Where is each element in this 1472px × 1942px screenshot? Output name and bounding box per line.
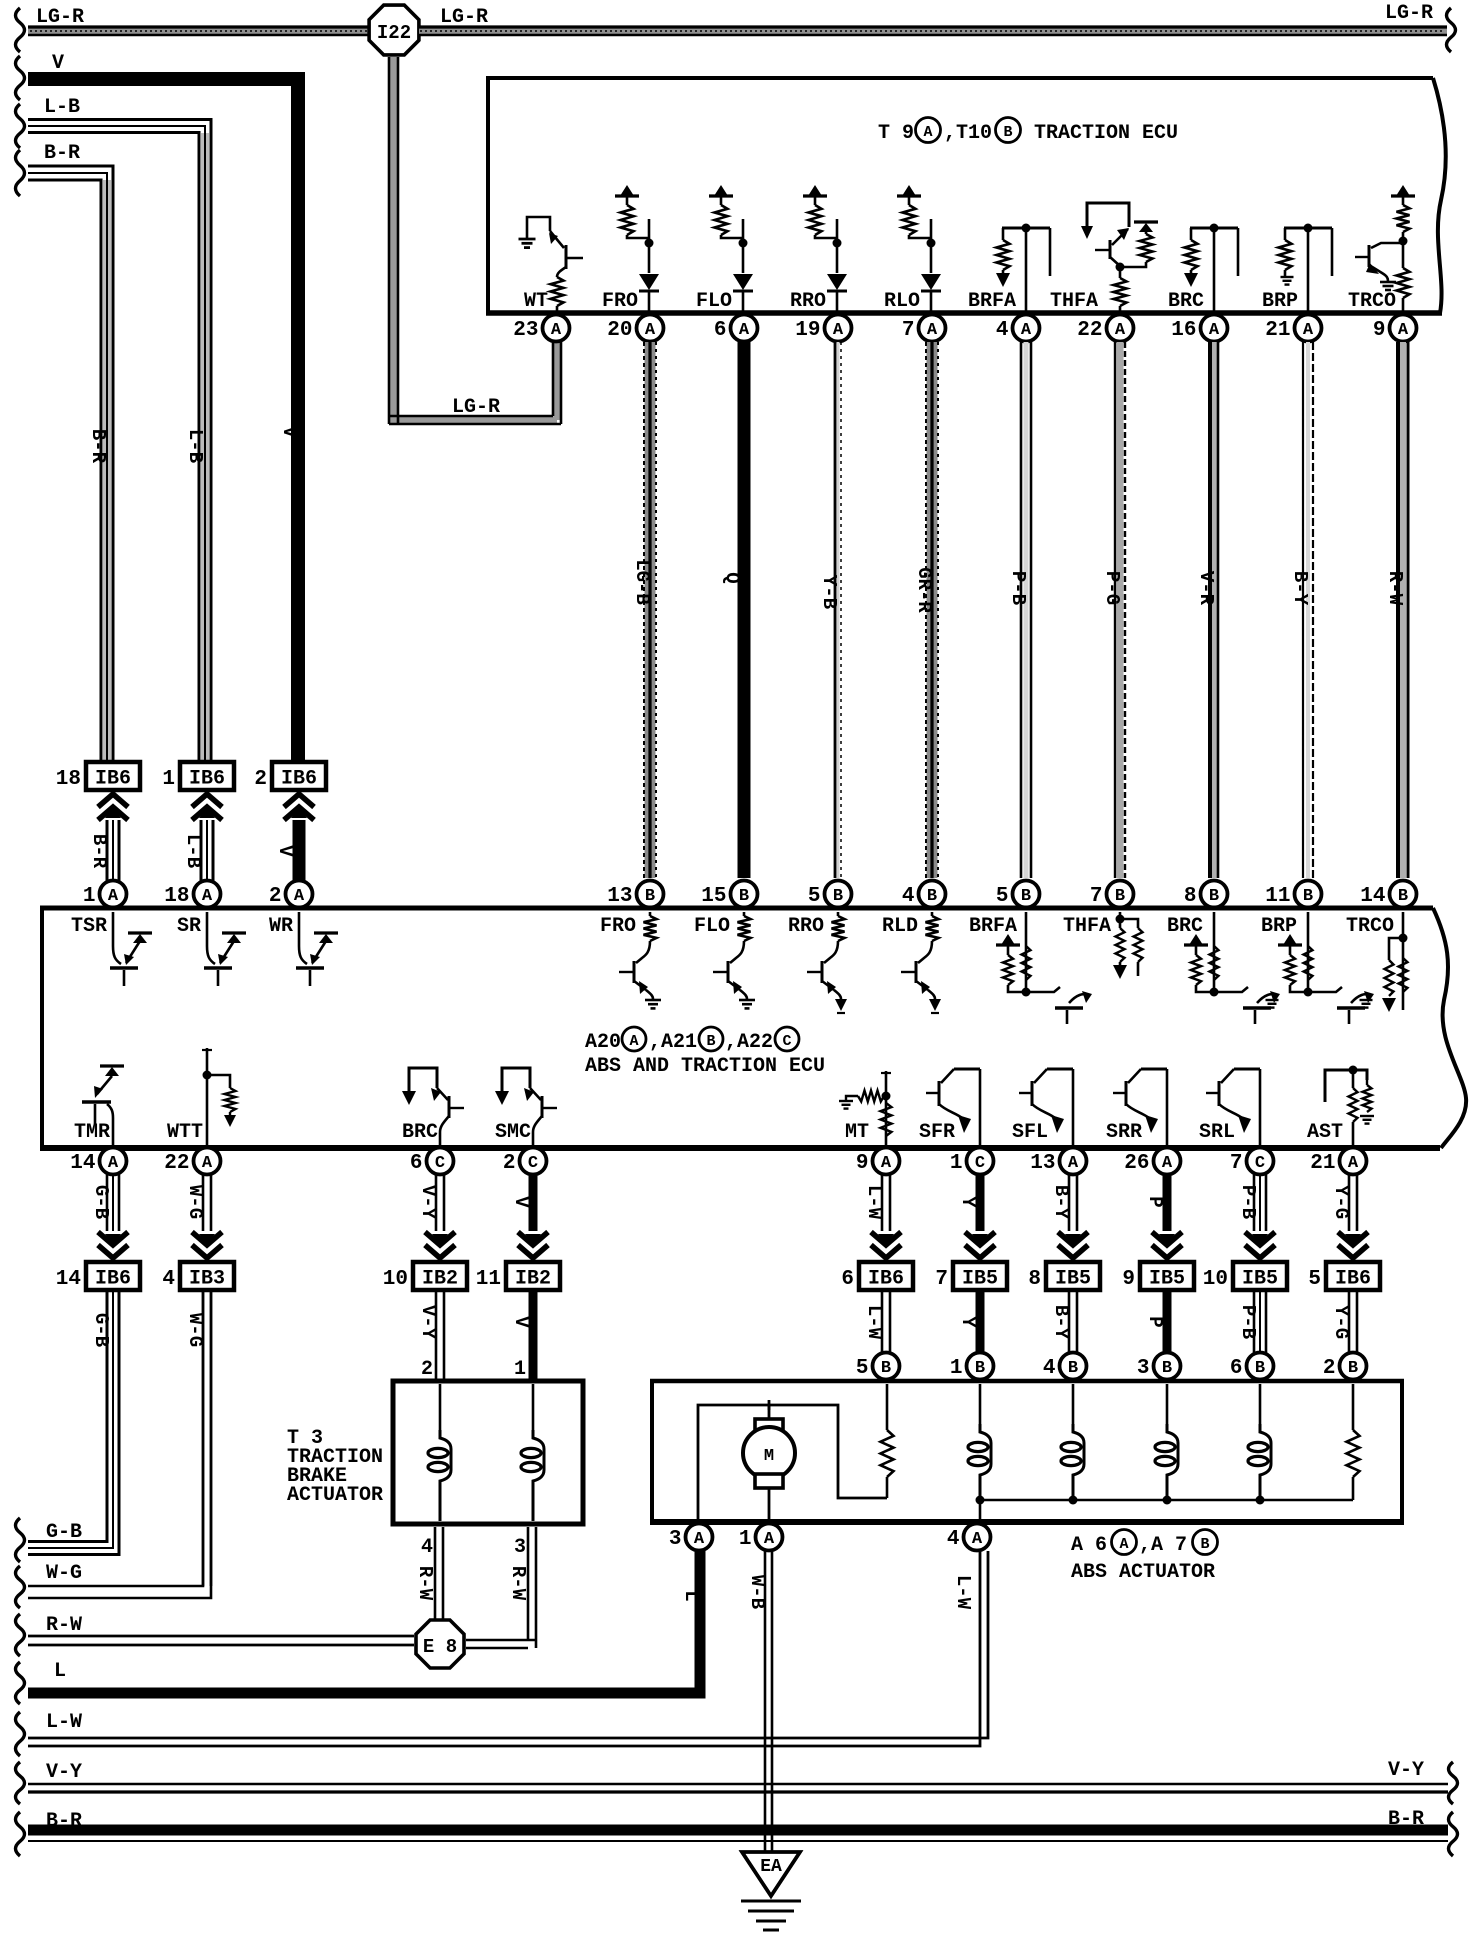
svg-text:L-B: L-B (184, 429, 206, 463)
svg-text:9: 9 (856, 1152, 869, 1175)
svg-text:2: 2 (421, 1358, 433, 1381)
svg-text:Y-B: Y-B (818, 575, 840, 609)
unit BRP transistor (inside ABS ECU) (1278, 943, 1302, 946)
transistor SRL (inside ABS ECU) (1259, 1069, 1262, 1145)
svg-text:TSR: TSR (71, 915, 107, 938)
svg-text:4: 4 (902, 885, 915, 908)
pin 6(C) ABS ECU bottom (427, 1148, 454, 1175)
connector 14 IB6 (86, 1262, 140, 1290)
svg-text:14: 14 (1360, 885, 1385, 908)
svg-text:W-G: W-G (46, 1562, 82, 1585)
svg-text:W-B: W-B (746, 1575, 768, 1609)
svg-text:SRR: SRR (1106, 1121, 1142, 1144)
svg-text:1: 1 (950, 1152, 963, 1175)
connector 18 IB6 (86, 762, 140, 790)
wire B-Y (pin 21A to 11B) (1306, 342, 1310, 878)
transistor TSR (inside ABS ECU) (113, 912, 121, 964)
svg-text:IB6: IB6 (95, 1268, 131, 1291)
arrow into connector IB6 column x113 (98, 794, 128, 807)
svg-text:Y: Y (957, 1316, 979, 1328)
svg-text:BRC: BRC (1168, 290, 1204, 313)
svg-text:B: B (927, 887, 937, 906)
svg-text:13: 13 (607, 885, 632, 908)
svg-text:7: 7 (935, 1268, 948, 1291)
svg-text:B: B (1303, 887, 1313, 906)
svg-text:B: B (1003, 124, 1012, 141)
svg-text:TRACTION ECU: TRACTION ECU (1034, 122, 1178, 145)
svg-text:A: A (1068, 1154, 1079, 1173)
wire GR-R (pin 7A to 4B) (927, 342, 938, 878)
svg-text:C: C (528, 1154, 538, 1173)
svg-text:B: B (1115, 887, 1125, 906)
svg-text:V: V (278, 426, 300, 438)
unit WTT wire resistor arrow (inside ABS ECU) (206, 1048, 209, 1145)
pin 15(B) ABS ECU top (731, 881, 758, 908)
svg-text:IB6: IB6 (1335, 1268, 1371, 1291)
svg-text:ABS AND TRACTION ECU: ABS AND TRACTION ECU (585, 1055, 825, 1078)
wire R-W E8 to pin3 wire (466, 1639, 536, 1642)
svg-text:WTT: WTT (167, 1121, 203, 1144)
unit TRCO resistors (inside ABS ECU) (1402, 912, 1405, 1010)
transistor TRCO (inside traction ECU) (1391, 194, 1415, 197)
connector 4 IB3 (180, 1262, 234, 1290)
wire V from ECU pin down (529, 1174, 538, 1231)
svg-text:5: 5 (808, 885, 821, 908)
transistor SFR (inside ABS ECU) (979, 1069, 982, 1145)
svg-text:3: 3 (1137, 1357, 1150, 1380)
svg-text:A: A (1119, 1536, 1128, 1553)
transistor RRO (inside ABS ECU) (832, 916, 845, 941)
arrow into connector 6 IB6 (871, 1245, 901, 1258)
svg-text:6: 6 (841, 1268, 854, 1291)
pin 2(B) ABS actuator top (1340, 1353, 1367, 1380)
svg-text:V: V (52, 52, 64, 75)
svg-text:G-B: G-B (90, 1313, 112, 1347)
svg-text:B-R: B-R (88, 834, 110, 869)
driver FLO: pull-up resistor and diode (inside traction ECU) (709, 194, 733, 197)
transistor SFL (inside ABS ECU) (1072, 1069, 1075, 1145)
resistor in ABS actuator (left) (886, 1384, 889, 1430)
pin 11(B) ABS ECU top (1295, 881, 1322, 908)
pin 13(B) ABS ECU top (637, 881, 664, 908)
ABS actuator box outline (650, 1379, 1404, 1384)
svg-text:A: A (1398, 321, 1409, 340)
wire V below connector (529, 1290, 538, 1381)
svg-text:B: B (1200, 1536, 1209, 1553)
pin 1(B) ABS actuator top (967, 1353, 994, 1380)
svg-text:R-W: R-W (1384, 571, 1406, 606)
sensor BRFA: resistor divider (inside traction ECU) (1002, 227, 1050, 230)
ABS and traction ECU box outline (40, 906, 1433, 911)
svg-text:R-W: R-W (46, 1614, 82, 1637)
arrow into connector 11 IB2 (518, 1245, 548, 1258)
pin 7(A) of traction ECU (919, 315, 946, 342)
coil solenoid in ABS actuator x1167 (1166, 1384, 1169, 1424)
resistor in ABS actuator (right) (1352, 1384, 1355, 1430)
svg-text:A: A (881, 1154, 892, 1173)
svg-text:B: B (1398, 887, 1408, 906)
svg-text:RRO: RRO (788, 915, 824, 938)
svg-text:V: V (274, 845, 296, 857)
transistor TMR (inside ABS ECU) (100, 1064, 124, 1067)
svg-text:GR-R: GR-R (913, 567, 935, 613)
wire W-B from motor pin 1A to ground EA (764, 1551, 767, 1852)
wire P below connector (1163, 1290, 1172, 1353)
svg-text:RRO: RRO (790, 290, 826, 313)
wire L-B connector to pin (200, 820, 203, 884)
svg-text:A: A (629, 1033, 638, 1050)
svg-text:B: B (881, 1359, 891, 1378)
pin 5(B) ABS actuator top (873, 1353, 900, 1380)
svg-text:1: 1 (83, 885, 96, 908)
svg-text:BRFA: BRFA (968, 290, 1016, 313)
wire from pin 3A up and across to motor/resistor (698, 1405, 887, 1519)
svg-text:22: 22 (1077, 319, 1102, 342)
svg-text:10: 10 (1203, 1268, 1228, 1291)
svg-text:LG-R: LG-R (1385, 2, 1433, 25)
wire R-W from T3 pin4 to E8 (434, 1527, 437, 1621)
svg-text:SFL: SFL (1012, 1121, 1048, 1144)
svg-text:23: 23 (513, 319, 538, 342)
pin 13(A) ABS ECU bottom (1060, 1148, 1087, 1175)
pin 1(A) ABS ECU top (100, 881, 127, 908)
svg-text:3: 3 (669, 1528, 682, 1551)
svg-text:B: B (833, 887, 843, 906)
svg-text:V: V (510, 1196, 532, 1208)
arrow into connector 4 IB3 (192, 1245, 222, 1258)
wire P-B from ECU pin down (1253, 1174, 1256, 1231)
svg-text:B: B (1068, 1359, 1078, 1378)
svg-text:20: 20 (607, 319, 632, 342)
continuation curl LG-R right (1447, 8, 1456, 52)
wire B-R connector to pin (106, 820, 109, 884)
svg-text:2: 2 (1323, 1357, 1336, 1380)
svg-text:C: C (975, 1154, 985, 1173)
pin 7(B) ABS ECU top (1107, 881, 1134, 908)
svg-text:V: V (510, 1316, 532, 1328)
unit MT resistor network (inside ABS ECU) (885, 1071, 888, 1145)
svg-text:V-Y: V-Y (46, 1761, 82, 1784)
svg-text:A: A (551, 321, 562, 340)
svg-text:A: A (202, 887, 213, 906)
svg-text:Y: Y (957, 1196, 979, 1208)
arrow into connector 7 IB5 (965, 1245, 995, 1258)
wire LG-B (pin 20A to 13B) (645, 342, 656, 878)
svg-text:TMR: TMR (74, 1121, 110, 1144)
wire G-B from ECU pin down (106, 1174, 109, 1231)
connector 10 IB5 (1233, 1262, 1287, 1290)
svg-text:14: 14 (70, 1152, 95, 1175)
svg-text:19: 19 (795, 319, 820, 342)
pin 16(A) of traction ECU (1201, 315, 1228, 342)
svg-text:11: 11 (1265, 885, 1290, 908)
svg-text:TRCO: TRCO (1348, 290, 1396, 313)
coil solenoid in ABS actuator x980 (979, 1384, 982, 1424)
svg-text:FRO: FRO (602, 290, 638, 313)
svg-text:WR: WR (269, 915, 293, 938)
svg-text:5: 5 (996, 885, 1009, 908)
arrow into connector 14 IB6 (98, 1245, 128, 1258)
svg-text:RLO: RLO (884, 290, 920, 313)
svg-text:8: 8 (1184, 885, 1197, 908)
pin 1(C) ABS ECU bottom (967, 1148, 994, 1175)
svg-text:SRL: SRL (1199, 1121, 1235, 1144)
svg-text:IB6: IB6 (95, 768, 131, 791)
pin 14(A) ABS ECU bottom (100, 1148, 127, 1175)
svg-text:B-Y: B-Y (1289, 571, 1311, 606)
transistor FRO (inside ABS ECU) (644, 916, 657, 941)
svg-text:,A22: ,A22 (725, 1031, 773, 1054)
pin 20(A) of traction ECU (637, 315, 664, 342)
pin 6(A) of traction ECU (731, 315, 758, 342)
T3 traction brake actuator box outline (393, 1381, 583, 1524)
wire P from ECU pin down (1163, 1174, 1172, 1231)
svg-text:A: A (1021, 321, 1032, 340)
continuation curl LG-R left (16, 8, 25, 52)
svg-text:Y-G: Y-G (1330, 1305, 1352, 1339)
transistor THFA (inside traction ECU) (1087, 203, 1129, 227)
svg-text:A: A (108, 887, 119, 906)
svg-text:ABS ACTUATOR: ABS ACTUATOR (1071, 1561, 1215, 1584)
connector 10 IB2 (413, 1262, 467, 1290)
connector 1 IB6 (180, 762, 234, 790)
svg-text:R-W: R-W (507, 1566, 529, 1601)
wire B-Y below connector (1068, 1290, 1071, 1353)
svg-text:P-B: P-B (1007, 571, 1029, 605)
svg-text:P-B: P-B (1237, 1185, 1259, 1219)
unit AST resistors (inside ABS ECU) (1325, 1070, 1367, 1102)
svg-text:4: 4 (947, 1528, 960, 1551)
wire V-Y from ECU pin down (435, 1174, 438, 1231)
svg-text:LG-B: LG-B (631, 559, 653, 605)
wire Y-G below connector (1348, 1290, 1351, 1353)
svg-text:FLO: FLO (694, 915, 730, 938)
wire W-G from ECU pin down (202, 1174, 205, 1231)
svg-text:4: 4 (996, 319, 1009, 342)
svg-text:A: A (1348, 1154, 1359, 1173)
svg-text:A: A (294, 887, 305, 906)
svg-text:BRC: BRC (1167, 915, 1203, 938)
pin 7(C) ABS ECU bottom (1247, 1148, 1274, 1175)
wire Y-B (pin 19A to 5B) (837, 342, 840, 878)
pin 9(A) of traction ECU (1390, 315, 1417, 342)
pin 1(A) ABS actuator bottom (756, 1524, 783, 1551)
wire G-B below connector (106, 1290, 109, 1541)
arrow into connector IB6 column x207 (192, 794, 222, 807)
svg-text:B: B (1255, 1359, 1265, 1378)
svg-text:IB2: IB2 (422, 1268, 458, 1291)
svg-text:18: 18 (56, 768, 81, 791)
svg-text:V-Y: V-Y (417, 1185, 439, 1220)
coil solenoid in T3 (left) (439, 1384, 442, 1430)
svg-text:6: 6 (714, 319, 727, 342)
svg-text:A: A (923, 124, 932, 141)
transistor SR (inside ABS ECU) (207, 912, 215, 964)
svg-text:G-B: G-B (90, 1185, 112, 1219)
svg-text:V-Y: V-Y (417, 1305, 439, 1340)
svg-text:B: B (1209, 887, 1219, 906)
svg-text:IB5: IB5 (1149, 1268, 1185, 1291)
unit BRC transistor (inside ABS ECU) (1184, 943, 1208, 946)
svg-text:LG-R: LG-R (36, 6, 84, 29)
svg-text:THFA: THFA (1050, 290, 1098, 313)
svg-text:E 8: E 8 (423, 1636, 457, 1658)
svg-text:B-R: B-R (87, 429, 109, 464)
arrow into connector IB6 column x299 (284, 794, 314, 807)
wire LG-R from I22 down and right to traction ECU pin 23 (390, 57, 397, 424)
svg-text:ACTUATOR: ACTUATOR (287, 1484, 383, 1507)
coil solenoid in T3 (right) (532, 1384, 535, 1430)
wire P-B below connector (1253, 1290, 1256, 1353)
svg-text:B: B (645, 887, 655, 906)
ground EA (742, 1852, 800, 1896)
svg-text:26: 26 (1124, 1152, 1149, 1175)
svg-text:IB3: IB3 (189, 1268, 225, 1291)
svg-text:B: B (1348, 1359, 1358, 1378)
svg-text:LG-R: LG-R (440, 6, 488, 29)
sensor BRC: resistor divider (inside traction ECU) (1190, 227, 1238, 230)
pin 21(A) ABS ECU bottom (1340, 1148, 1367, 1175)
svg-text:SR: SR (177, 915, 201, 938)
svg-text:MT: MT (845, 1121, 869, 1144)
svg-text:L-W: L-W (863, 1185, 885, 1220)
svg-text:6: 6 (410, 1152, 423, 1175)
arrow into connector 10 IB2 (425, 1245, 455, 1258)
wire L-W from ECU pin down (881, 1174, 884, 1231)
connector 8 IB5 (1046, 1262, 1100, 1290)
svg-text:P: P (1144, 1196, 1166, 1207)
pin 5(B) ABS ECU top (825, 881, 852, 908)
svg-text:15: 15 (701, 885, 726, 908)
connector 11 IB2 (506, 1262, 560, 1290)
svg-text:B: B (706, 1033, 715, 1050)
svg-text:FLO: FLO (696, 290, 732, 313)
svg-text:L: L (54, 1660, 66, 1683)
svg-text:B-R: B-R (44, 142, 80, 165)
pin 4(A) ABS actuator bottom (964, 1524, 991, 1551)
svg-text:,A21: ,A21 (649, 1031, 697, 1054)
coil solenoid in ABS actuator x1073 (1072, 1384, 1075, 1424)
svg-text:L-B: L-B (44, 96, 80, 119)
svg-text:IB6: IB6 (281, 768, 317, 791)
connector 9 IB5 (1140, 1262, 1194, 1290)
svg-text:13: 13 (1030, 1152, 1055, 1175)
svg-text:A: A (833, 321, 844, 340)
svg-text:B-Y: B-Y (1050, 1305, 1072, 1340)
svg-text:B-Y: B-Y (1050, 1185, 1072, 1220)
pin 3(B) ABS actuator top (1154, 1353, 1181, 1380)
svg-text:B: B (975, 1359, 985, 1378)
svg-text:TRCO: TRCO (1346, 915, 1394, 938)
svg-text:L-B: L-B (182, 834, 204, 868)
svg-text:8: 8 (1028, 1268, 1041, 1291)
transistor SRR (inside ABS ECU) (1166, 1069, 1169, 1145)
svg-text:B: B (1021, 887, 1031, 906)
svg-text:5: 5 (1308, 1268, 1321, 1291)
svg-text:14: 14 (56, 1268, 81, 1291)
traction ECU box outline (486, 76, 1433, 80)
pin 5(B) ABS ECU top (1013, 881, 1040, 908)
svg-text:LG-R: LG-R (452, 396, 500, 419)
svg-text:11: 11 (476, 1268, 501, 1291)
wire W-G below connector (202, 1290, 205, 1586)
arrow into connector 10 IB5 (1245, 1245, 1275, 1258)
svg-text:A: A (645, 321, 656, 340)
svg-text:4: 4 (1043, 1357, 1056, 1380)
arrow into connector 8 IB5 (1058, 1245, 1088, 1258)
wire P-B (pin 4A to 5B) (1024, 342, 1029, 878)
svg-text:16: 16 (1171, 319, 1196, 342)
svg-text:P: P (1144, 1316, 1166, 1327)
driver FRO: pull-up resistor and diode (inside traction ECU) (615, 194, 639, 197)
svg-text:9: 9 (1122, 1268, 1135, 1291)
wire V-Y below connector (435, 1290, 438, 1381)
transistor WR (inside ABS ECU) (299, 912, 307, 964)
svg-text:IB5: IB5 (1242, 1268, 1278, 1291)
svg-text:1: 1 (514, 1358, 526, 1381)
svg-text:V-R: V-R (1195, 571, 1217, 606)
transistor BRC (bottom, inside ABS ECU) (409, 1068, 437, 1095)
pin 14(B) ABS ECU top (1390, 881, 1417, 908)
svg-text:I22: I22 (377, 22, 411, 44)
svg-text:21: 21 (1265, 319, 1290, 342)
wire R-W from T3 pin3 down (527, 1527, 530, 1640)
svg-text:EA: EA (760, 1857, 782, 1877)
transistor WT with ground (inside traction ECU) (519, 238, 536, 241)
pin 4(B) ABS actuator top (1060, 1353, 1087, 1380)
coil solenoid in ABS actuator x1260 (1259, 1384, 1262, 1424)
svg-text:BRP: BRP (1261, 915, 1297, 938)
svg-text:A: A (764, 1530, 775, 1549)
svg-text:7: 7 (1230, 1152, 1243, 1175)
svg-text:22: 22 (164, 1152, 189, 1175)
svg-text:A: A (1209, 321, 1220, 340)
junction connector E8 (416, 1620, 464, 1668)
arrow into connector 5 IB6 (1338, 1245, 1368, 1258)
wire Y below connector (976, 1290, 985, 1353)
bus wire in ABS actuator (980, 1499, 1353, 1502)
svg-text:A: A (108, 1154, 119, 1173)
svg-text:A: A (1115, 321, 1126, 340)
wire Y-G from ECU pin down (1348, 1174, 1351, 1231)
svg-text:BRFA: BRFA (969, 915, 1017, 938)
svg-text:,A 7: ,A 7 (1139, 1534, 1187, 1557)
pin 2(A) ABS ECU top (286, 881, 313, 908)
svg-text:L-W: L-W (952, 1575, 974, 1610)
pin 2(C) ABS ECU bottom (520, 1148, 547, 1175)
svg-text:A20: A20 (585, 1031, 621, 1054)
junction connector I22 (369, 5, 419, 55)
pin 22(A) ABS ECU bottom (194, 1148, 221, 1175)
svg-text:A: A (1162, 1154, 1173, 1173)
wire R-W (pin 9A to 14B) (1400, 342, 1406, 878)
svg-text:AST: AST (1307, 1121, 1343, 1144)
driver RRO: pull-up resistor and diode (inside traction ECU) (803, 194, 827, 197)
svg-text:A 6: A 6 (1071, 1534, 1107, 1557)
driver RLO: pull-up resistor and diode (inside traction ECU) (897, 194, 921, 197)
svg-text:7: 7 (1090, 885, 1103, 908)
svg-text:1: 1 (739, 1528, 752, 1551)
svg-text:P-B: P-B (1237, 1305, 1259, 1339)
svg-text:IB5: IB5 (1055, 1268, 1091, 1291)
wire LG-R top-right segment (419, 27, 1447, 36)
svg-text:M: M (764, 1447, 774, 1466)
svg-text:21: 21 (1310, 1152, 1335, 1175)
transistor RLD (inside ABS ECU) (926, 916, 939, 941)
svg-text:RLD: RLD (882, 915, 918, 938)
svg-text:FRO: FRO (600, 915, 636, 938)
connector 2 IB6 (272, 762, 326, 790)
